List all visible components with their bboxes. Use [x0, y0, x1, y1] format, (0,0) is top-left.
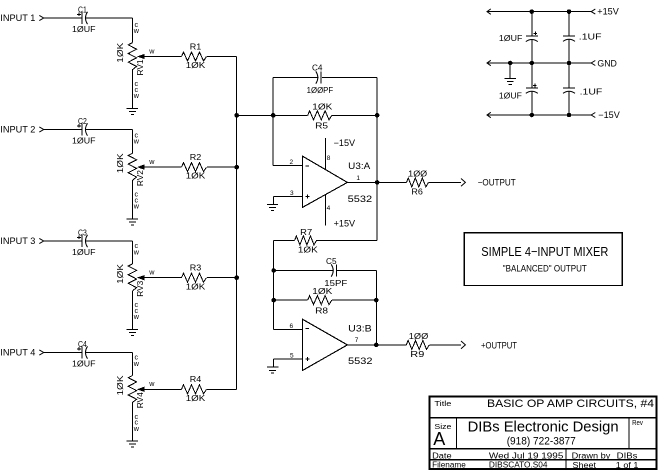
capacitor C2	[81, 123, 83, 135]
svg-text:1: 1	[356, 175, 360, 182]
port arrow +OUTPUT	[461, 341, 465, 349]
svg-text:5532: 5532	[348, 356, 373, 367]
svg-text:1ØØPF: 1ØØPF	[307, 85, 334, 95]
svg-text:INPUT 3: INPUT 3	[0, 236, 35, 246]
svg-text:1ØØ: 1ØØ	[408, 168, 427, 178]
ground of RV3	[127, 329, 138, 331]
svg-text:R8: R8	[315, 306, 328, 316]
svg-text:1ØK: 1ØK	[186, 281, 206, 291]
wire R1 to summing bus	[207, 56, 237, 58]
wire B-section left vertical	[273, 240, 275, 329]
capacitor C1	[81, 12, 83, 24]
svg-text:w: w	[133, 137, 140, 146]
resistor R2	[182, 163, 207, 172]
resistor R7 10K	[295, 236, 317, 245]
svg-text:w: w	[133, 424, 140, 433]
svg-text:1ØK: 1ØK	[186, 171, 206, 181]
wire op-amp A output	[347, 181, 406, 183]
wire RV4 wiper to R4	[145, 388, 182, 390]
svg-text:R4: R4	[190, 374, 202, 384]
svg-text:Wed Jul 19 1995: Wed Jul 19 1995	[489, 451, 564, 460]
wire −15V power rail	[487, 114, 591, 116]
potentiometer RV1	[128, 43, 136, 70]
svg-text:RV2: RV2	[136, 170, 145, 187]
svg-text:+OUTPUT: +OUTPUT	[481, 340, 517, 350]
node bus-R3 junction	[234, 275, 239, 280]
capacitor 10UF upper (decoupling +15V)	[531, 12, 533, 36]
node GND left-branch junction	[530, 61, 535, 66]
svg-text:C3: C3	[78, 227, 87, 237]
node R5 left junction	[271, 113, 276, 118]
svg-text:1ØK: 1ØK	[116, 375, 125, 396]
capacitor C4	[81, 346, 83, 358]
wire feedback right vertical	[376, 78, 378, 241]
svg-text:(918) 722-3877: (918) 722-3877	[507, 436, 576, 448]
svg-text:1ØUF: 1ØUF	[72, 135, 96, 145]
svg-text:C4: C4	[78, 339, 87, 349]
svg-text:w: w	[133, 26, 140, 35]
svg-text:INPUT 1: INPUT 1	[0, 13, 35, 23]
svg-text:RV4: RV4	[136, 392, 145, 409]
pin 8 power stub -15V	[325, 138, 327, 169]
port chevron GND	[591, 61, 595, 66]
resistor R6 100	[407, 178, 429, 187]
wire RV1 to ground	[131, 70, 133, 109]
svg-text:1ØUF: 1ØUF	[72, 24, 96, 34]
potentiometer RV2	[128, 153, 136, 180]
wire RV3 wiper to R3	[145, 277, 182, 279]
svg-text:+15V: +15V	[334, 219, 356, 229]
svg-text:2: 2	[289, 159, 293, 166]
svg-text:5: 5	[290, 353, 294, 360]
svg-text:w: w	[148, 379, 155, 388]
wire R8 line	[274, 299, 308, 301]
svg-text:DIBs Electronic Design: DIBs Electronic Design	[468, 420, 619, 436]
svg-text:7: 7	[355, 337, 359, 344]
svg-text:R6: R6	[411, 187, 423, 197]
svg-text:1ØK: 1ØK	[116, 152, 125, 173]
svg-text:DIBs: DIBs	[617, 451, 638, 460]
svg-text:1ØK: 1ØK	[116, 263, 125, 284]
svg-text:R5: R5	[315, 121, 328, 131]
svg-text:3: 3	[290, 190, 294, 197]
svg-text:R1: R1	[190, 41, 202, 51]
svg-text:INPUT 4: INPUT 4	[0, 348, 35, 358]
wire R6 to -OUTPUT port	[429, 181, 462, 183]
resistor R4	[182, 385, 207, 394]
svg-text:1ØK: 1ØK	[312, 101, 332, 111]
svg-text:"BALANCED" OUTPUT: "BALANCED" OUTPUT	[503, 264, 587, 274]
svg-text:1 of 1: 1 of 1	[616, 461, 639, 470]
svg-text:w: w	[148, 157, 155, 166]
wire RV3 to ground	[131, 291, 133, 330]
svg-text:Sheet: Sheet	[573, 461, 597, 470]
svg-text:Drawn by: Drawn by	[572, 451, 611, 460]
svg-text:C4: C4	[312, 63, 323, 73]
wire INPUT 4 to C4	[44, 352, 81, 354]
wire C3 to RV3	[86, 240, 133, 242]
op-amp U3:B	[303, 319, 348, 370]
node -15V left-branch junction	[530, 113, 535, 118]
wire R5 line from bus to feedback node	[237, 114, 308, 116]
svg-text:4: 4	[327, 205, 331, 212]
capacitor 10UF lower (decoupling -15V)	[531, 63, 533, 88]
svg-text:.1UF: .1UF	[580, 86, 603, 96]
node R8 left junction	[271, 298, 276, 303]
svg-text:RV3: RV3	[136, 280, 145, 297]
svg-text:w: w	[133, 91, 140, 100]
port arrow INPUT 3	[39, 238, 43, 243]
svg-text:1ØK: 1ØK	[186, 393, 206, 403]
svg-text:1ØUF: 1ØUF	[72, 247, 96, 257]
node op-amp A output junction	[375, 180, 380, 185]
wire C1 to RV1	[86, 17, 133, 19]
node bus-R5 junction	[234, 113, 239, 118]
svg-text:R9: R9	[410, 349, 424, 359]
capacitor C5 15PF	[331, 264, 333, 276]
svg-text:w: w	[133, 247, 140, 256]
wire C5 feedback line	[274, 270, 334, 272]
svg-text:1ØK: 1ØK	[298, 245, 318, 255]
node GND ground junction	[508, 61, 513, 66]
svg-text:A: A	[433, 429, 445, 449]
ground of RV2	[127, 218, 138, 220]
wire RV1 wiper to R1	[145, 56, 182, 58]
resistor R9 100	[406, 340, 429, 349]
svg-text:1ØUF: 1ØUF	[499, 91, 522, 101]
wire feedback left vertical to inverting input	[272, 78, 274, 166]
wire op-amp B inverting input	[274, 329, 302, 331]
wire +15V power rail	[487, 11, 591, 13]
node op-amp B output junction	[374, 343, 379, 348]
wire GND power rail	[487, 62, 591, 64]
node C5 left junction	[271, 268, 276, 273]
svg-text:1ØUF: 1ØUF	[72, 358, 96, 368]
wire op-amp A non-inverting input	[274, 195, 302, 197]
node bus-R2 junction	[234, 165, 239, 170]
ground symbol on GND rail	[509, 63, 511, 78]
title block column dividers	[456, 418, 458, 449]
svg-text:R7: R7	[300, 227, 312, 237]
svg-text:Date: Date	[432, 451, 452, 460]
svg-text:C2: C2	[78, 116, 87, 126]
wire C4 to RV4	[86, 352, 133, 354]
node R5 right junction	[375, 113, 380, 118]
wire RV2 to ground	[131, 180, 133, 219]
wire R7 line	[274, 239, 295, 241]
resistor R1	[182, 52, 207, 61]
svg-text:1ØUF: 1ØUF	[499, 33, 523, 43]
port arrow -OUTPUT	[461, 179, 465, 187]
potentiometer RV4	[128, 376, 136, 403]
wire INPUT 3 to C3	[44, 240, 81, 242]
wire INPUT 1 to C1	[44, 17, 81, 19]
rail left arrow −15V	[487, 112, 491, 117]
title block frame	[430, 397, 657, 470]
wire summing bus vertical	[236, 57, 238, 390]
capacitor .1UF lower (decoupling -15V)	[568, 63, 570, 88]
svg-text:U3:B: U3:B	[348, 324, 372, 334]
svg-text:C1: C1	[78, 4, 87, 14]
svg-text:1ØK: 1ØK	[186, 60, 206, 70]
node -15V right-branch junction	[567, 113, 572, 118]
svg-text:INPUT 2: INPUT 2	[0, 125, 35, 135]
port arrow INPUT 1	[39, 15, 43, 20]
resistor R8 10K	[308, 296, 332, 305]
node +15V left-branch junction	[530, 9, 535, 14]
pin 4 power stub +15V	[325, 195, 327, 225]
wire C4 feedback top	[273, 77, 318, 79]
wire R4 to summing bus	[207, 388, 237, 390]
capacitor .1UF upper (decoupling +15V)	[568, 12, 570, 36]
svg-text:Title: Title	[434, 399, 451, 408]
svg-text:GND: GND	[597, 58, 617, 68]
ground at op-amp A + input	[273, 196, 275, 204]
svg-text:1ØK: 1ØK	[312, 286, 332, 296]
svg-text:w: w	[133, 312, 140, 321]
wire RV4 to ground	[131, 402, 133, 441]
svg-text:Rev: Rev	[632, 418, 643, 427]
wire B-section right vertical	[375, 271, 377, 345]
port chevron +15V	[591, 9, 595, 14]
node R8 right junction	[374, 298, 379, 303]
op-amp U3:A	[303, 156, 348, 207]
port arrow INPUT 4	[39, 350, 43, 355]
node +15V right-branch junction	[567, 9, 572, 14]
svg-text:R3: R3	[190, 263, 202, 273]
node GND right-branch junction	[567, 61, 572, 66]
capacitor C3	[81, 235, 83, 247]
svg-text:5532: 5532	[348, 194, 373, 205]
capacitor C4 100PF	[316, 71, 318, 83]
svg-text:w: w	[133, 202, 140, 211]
resistor R5 10K	[308, 111, 332, 120]
svg-text:.1UF: .1UF	[579, 32, 602, 42]
wire RV2 wiper to R2	[145, 166, 182, 168]
rail left arrow GND	[487, 60, 491, 65]
port arrow INPUT 2	[39, 127, 43, 132]
svg-text:8: 8	[327, 155, 331, 162]
port chevron −15V	[591, 113, 595, 118]
ground at op-amp B + input	[272, 359, 274, 367]
potentiometer RV3	[128, 264, 136, 291]
svg-text:DIBSCATO.S04: DIBSCATO.S04	[489, 461, 548, 470]
svg-text:U3:A: U3:A	[348, 161, 370, 171]
svg-text:−15V: −15V	[334, 138, 356, 148]
svg-text:6: 6	[289, 323, 293, 330]
svg-text:w: w	[133, 359, 140, 368]
wire C2 to RV2	[86, 129, 133, 131]
svg-text:1ØK: 1ØK	[116, 42, 125, 63]
resistor R3	[182, 273, 207, 282]
wire R2 to summing bus	[207, 166, 237, 168]
svg-text:RV1: RV1	[136, 59, 145, 76]
title block row dividers	[430, 417, 657, 419]
rail left arrow +15V	[487, 9, 491, 14]
svg-text:w: w	[148, 46, 155, 55]
svg-text:w: w	[148, 268, 155, 277]
wire op-amp B output	[347, 344, 406, 346]
svg-text:BASIC OP AMP CIRCUITS, #4: BASIC OP AMP CIRCUITS, #4	[487, 398, 654, 410]
svg-text:−15V: −15V	[598, 110, 620, 120]
svg-text:C5: C5	[326, 256, 337, 266]
wire R3 to summing bus	[207, 277, 237, 279]
ground of RV1	[127, 107, 138, 109]
wire op-amp B non-inverting input	[273, 358, 302, 360]
ground of RV4	[127, 440, 138, 442]
svg-text:+15V: +15V	[597, 7, 619, 17]
wire R9 to +OUTPUT port	[429, 344, 461, 346]
svg-text:R2: R2	[190, 152, 202, 162]
wire op-amp A inverting input	[273, 165, 302, 167]
svg-text:Filename: Filename	[432, 461, 466, 470]
note box SIMPLE 4-INPUT MIXER	[464, 233, 622, 286]
svg-text:SIMPLE 4−INPUT MIXER: SIMPLE 4−INPUT MIXER	[481, 244, 608, 259]
svg-text:−OUTPUT: −OUTPUT	[478, 177, 516, 187]
wire INPUT 2 to C2	[44, 129, 81, 131]
svg-text:1ØØ: 1ØØ	[409, 331, 429, 341]
